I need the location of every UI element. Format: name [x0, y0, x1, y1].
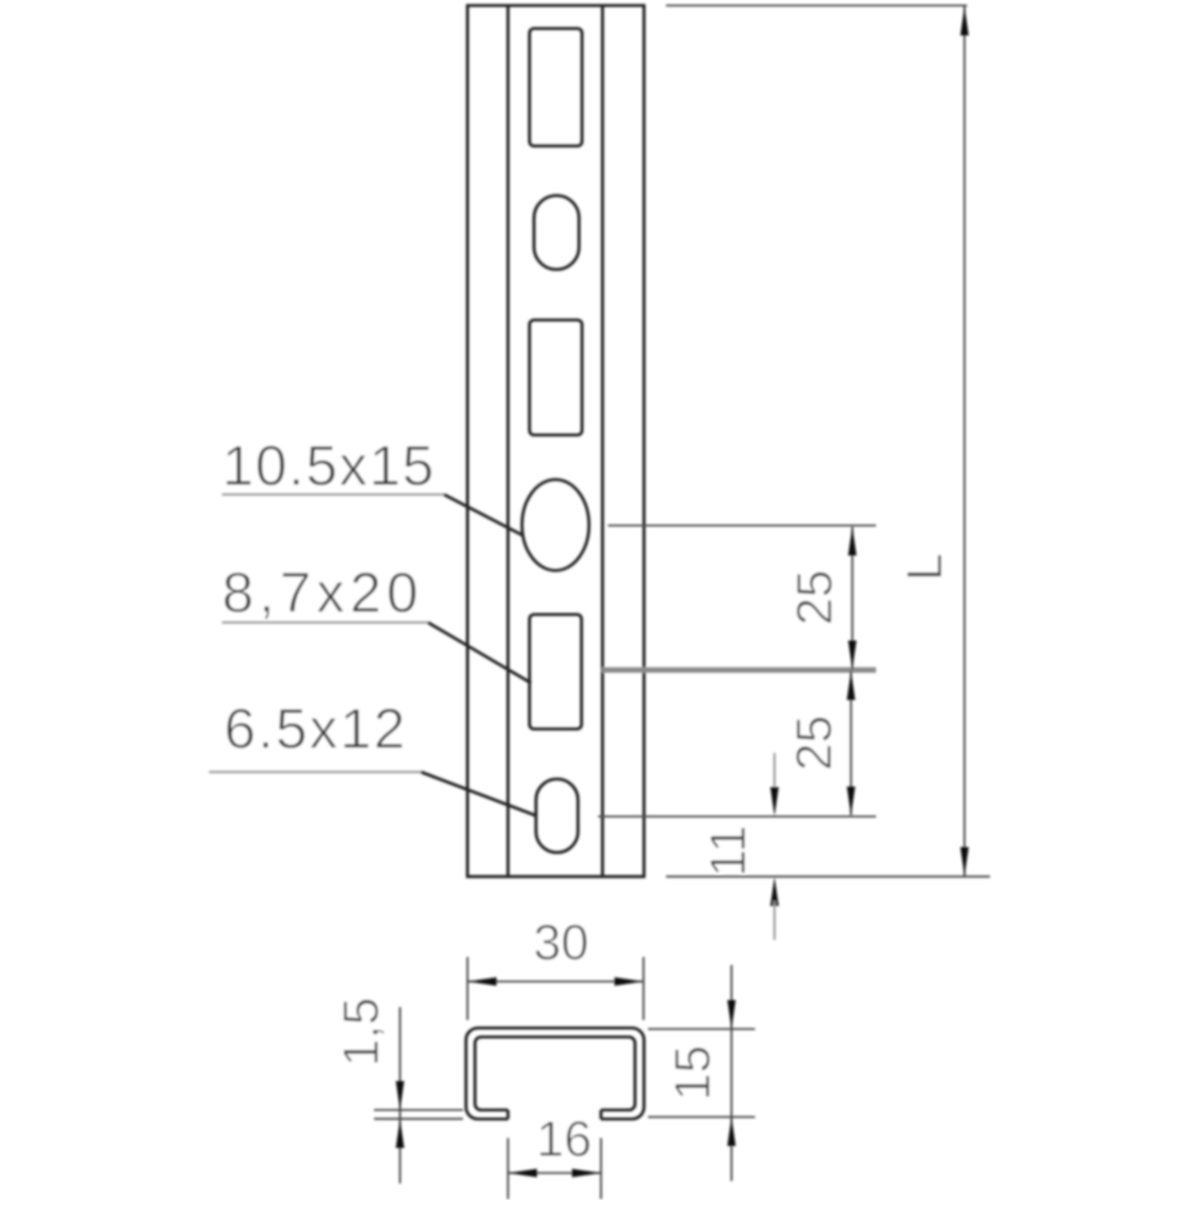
dimension 11: arrow up to bottom line — [770, 877, 778, 906]
svg-text:L: L — [897, 553, 953, 581]
dimension 25 lower: line — [850, 671, 852, 815]
cross section: outer contour — [466, 1028, 644, 1119]
hole 10.5x15 ellipse — [522, 480, 589, 571]
dimension 15: bottom extension line — [648, 1116, 755, 1118]
svg-text:25: 25 — [787, 570, 843, 626]
rail front view: bottom edge — [466, 875, 646, 878]
svg-text:1,5: 1,5 — [333, 997, 389, 1067]
dimension 25 lower: arrow up — [847, 671, 855, 700]
dimension 30: line — [468, 980, 643, 982]
dimension 16: left extension line — [507, 1138, 509, 1199]
oval hole 6.5x12 upper — [534, 196, 579, 270]
svg-text:25: 25 — [786, 715, 842, 771]
svg-text:6.5x12: 6.5x12 — [224, 697, 407, 761]
cross section: right flange end cap — [599, 1110, 602, 1119]
cross section: left flange end cap — [506, 1110, 509, 1119]
dimension 11: upper line segment — [773, 753, 775, 792]
dimension L: line — [963, 6, 965, 876]
leader line 6.5x12 to oval — [421, 772, 537, 816]
leader line 8,7x20 to slot — [428, 623, 531, 684]
dimension 16: arrow right — [572, 1169, 601, 1177]
underline for 8,7x20 — [222, 621, 428, 623]
dimension 30: arrow right — [615, 977, 644, 985]
dimension 1,5: top extension line — [374, 1109, 463, 1111]
dimension 16: line — [508, 1172, 601, 1174]
thick grey extension line from slot centre — [602, 667, 876, 673]
dimension 16: right extension line — [600, 1138, 602, 1199]
dimension 15: arrow down to top line — [727, 1000, 735, 1029]
dimension 25 upper: arrow down — [848, 641, 856, 670]
rail front view: left inner fold line — [506, 5, 509, 878]
top extension line for L — [666, 4, 967, 6]
rail front view: left outer edge — [466, 5, 469, 878]
slot 8.7x20 third — [530, 615, 582, 730]
dimension 15: top extension line — [648, 1028, 755, 1030]
dimension 1,5: line — [399, 1007, 401, 1184]
bottom extension line — [666, 876, 990, 878]
rail front view: right outer edge — [642, 5, 645, 878]
svg-text:15: 15 — [665, 1045, 721, 1101]
dimension 25 upper: line — [851, 527, 853, 669]
dimension L: arrow down — [960, 847, 968, 876]
svg-text:16: 16 — [536, 1111, 592, 1167]
svg-text:11: 11 — [700, 825, 756, 877]
dimension 11: arrow down to oval line — [770, 787, 778, 816]
svg-text:8,7x20: 8,7x20 — [222, 561, 423, 625]
dimension 25 upper: arrow up — [848, 527, 856, 556]
slot 8.7x20 top — [530, 29, 583, 147]
dimension 1,5: arrow down to top line — [396, 1081, 404, 1110]
rail front view: right inner fold line — [601, 5, 604, 878]
oval hole 6.5x12 lower — [536, 779, 578, 853]
extension line from lower oval centre — [598, 815, 876, 817]
dimension 30: arrow left — [468, 977, 497, 985]
underline for 6.5x12 — [209, 771, 421, 773]
svg-text:10.5x15: 10.5x15 — [222, 434, 435, 498]
dimension L: arrow up — [960, 7, 968, 36]
rail front view: top edge — [466, 4, 646, 7]
dimension 11: lower line segment — [773, 901, 775, 940]
dimension 30: left extension line — [466, 957, 468, 1020]
dimension 25 lower: arrow down — [847, 787, 855, 816]
dimension 30: right extension line — [642, 957, 644, 1020]
dimension 1,5: arrow up to bottom line — [396, 1119, 404, 1148]
cross section: inner contour — [475, 1037, 635, 1110]
dimension 15: line — [730, 965, 732, 1181]
slot 8.7x20 second — [530, 320, 583, 435]
dimension 15: arrow up to bottom line — [727, 1117, 735, 1146]
dimension 1,5: bottom extension line — [374, 1118, 463, 1120]
dimension 16: arrow left — [508, 1169, 537, 1177]
leader line 10.5x15 to ellipse — [444, 495, 523, 536]
underline for 10.5x15 — [222, 493, 444, 495]
extension line from ellipse centre — [608, 524, 876, 526]
svg-text:30: 30 — [533, 915, 589, 971]
